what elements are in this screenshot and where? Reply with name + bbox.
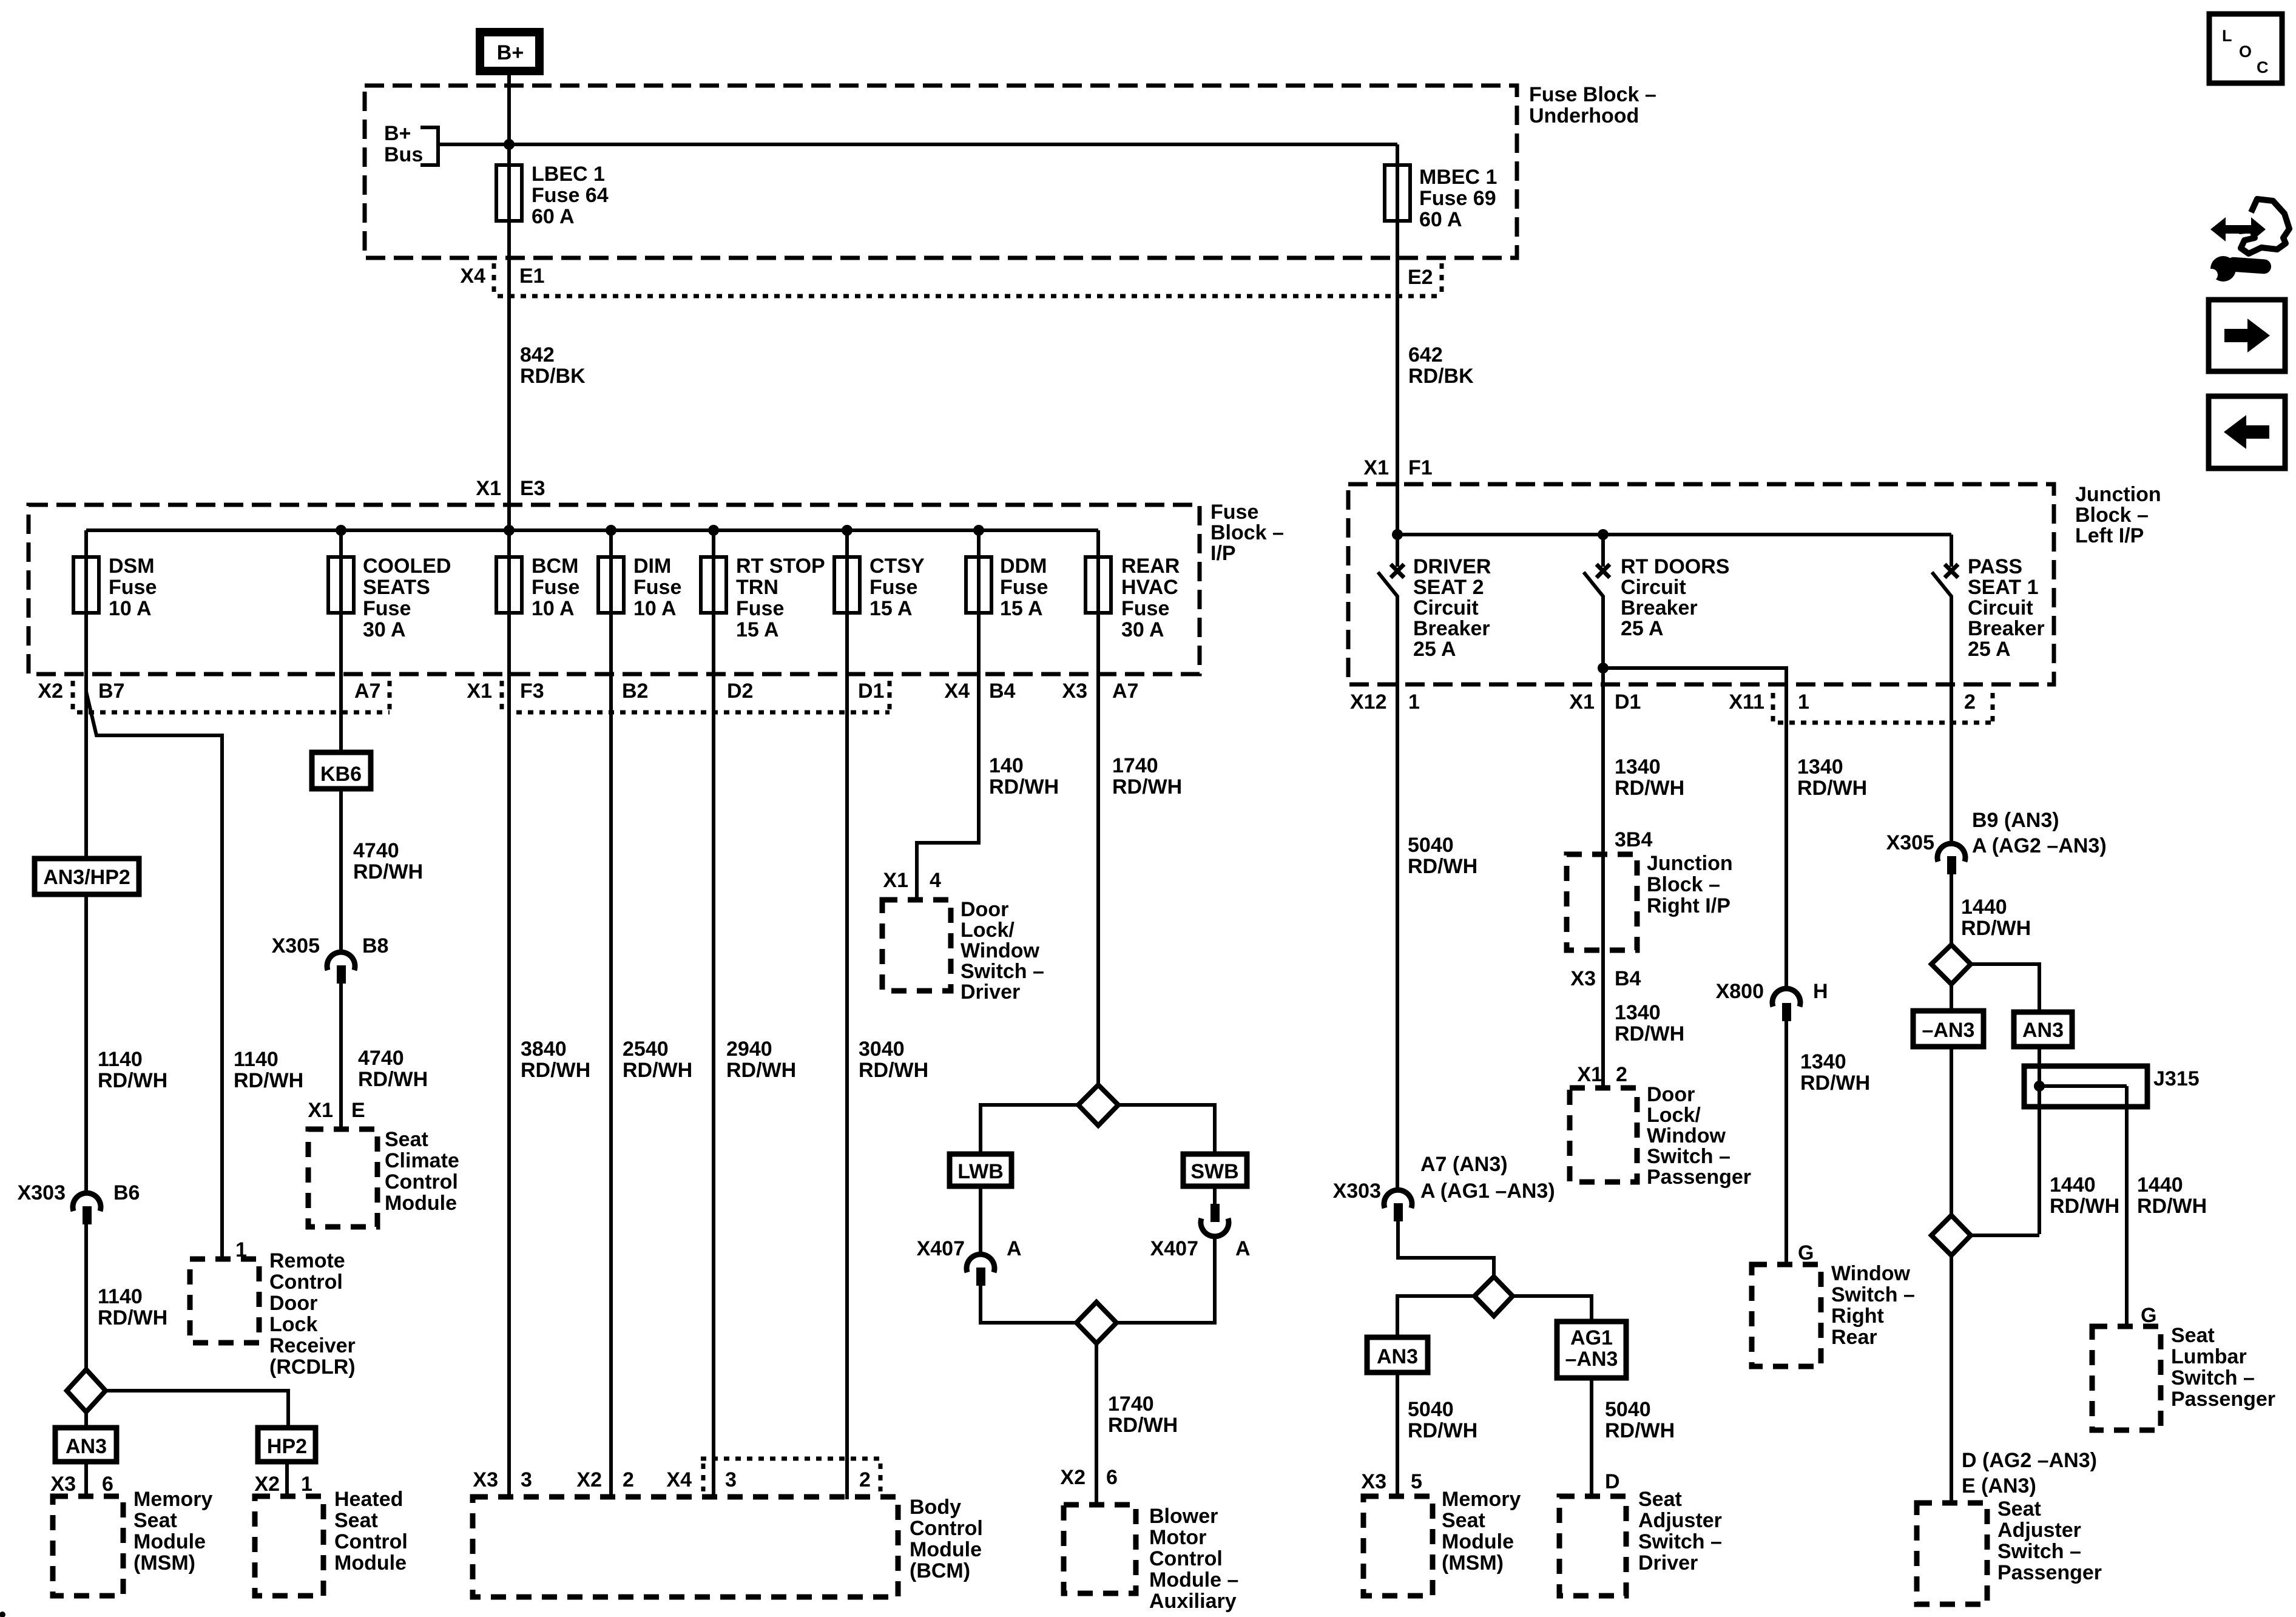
svg-text:Control: Control <box>1149 1547 1223 1570</box>
svg-text:X12: X12 <box>1350 690 1387 714</box>
splice diamond blower top <box>981 1085 1215 1154</box>
svg-text:1740: 1740 <box>1108 1393 1154 1416</box>
svg-text:30 A: 30 A <box>1121 618 1164 641</box>
svg-text:B6: B6 <box>113 1181 140 1204</box>
svg-text:2540: 2540 <box>623 1038 669 1061</box>
svg-text:X1: X1 <box>883 869 908 892</box>
svg-text:Adjuster: Adjuster <box>1997 1519 2081 1542</box>
svg-text:1440: 1440 <box>2137 1173 2183 1197</box>
svg-text:RD/WH: RD/WH <box>1112 775 1182 798</box>
wire branch to X11 <box>1603 668 1786 693</box>
Door Lock/Window Switch - Passenger dashed box <box>1570 1083 1751 1189</box>
BCM pin labels <box>473 1468 871 1491</box>
svg-text:X2: X2 <box>38 680 63 703</box>
svg-text:Memory: Memory <box>133 1488 212 1511</box>
svg-text:25 A: 25 A <box>1968 638 2011 661</box>
svg-text:TRN: TRN <box>736 576 778 599</box>
svg-text:SEATS: SEATS <box>363 576 430 599</box>
svg-text:AG1: AG1 <box>1570 1326 1613 1349</box>
node X3/5 <box>1361 1470 1422 1493</box>
svg-text:10 A: 10 A <box>633 597 677 620</box>
Door Lock/Window Switch - Driver dashed box <box>882 897 1044 1004</box>
svg-text:X800: X800 <box>1716 980 1764 1003</box>
node bus/B+ junction <box>504 139 515 150</box>
svg-text:15 A: 15 A <box>869 597 913 620</box>
svg-text:Fuse 69: Fuse 69 <box>1419 187 1496 210</box>
svg-text:Module: Module <box>334 1551 407 1575</box>
Seat Climate Control Module dashed box <box>308 1127 459 1227</box>
connector row A (fuse block I/P bottom) <box>38 680 1138 712</box>
wire 1740 RD/WH to blower <box>1108 1393 1178 1437</box>
svg-text:E1: E1 <box>519 265 545 288</box>
svg-text:Seat: Seat <box>1997 1497 2041 1521</box>
box HP2 <box>258 1428 316 1496</box>
Fuse Block - I/P dashed box <box>29 505 1200 674</box>
svg-text:3040: 3040 <box>859 1038 905 1061</box>
svg-text:1: 1 <box>301 1473 312 1496</box>
svg-text:2: 2 <box>859 1468 871 1491</box>
svg-text:3840: 3840 <box>521 1038 567 1061</box>
svg-text:60 A: 60 A <box>1419 208 1462 231</box>
wire 1440 RD/WH upper <box>1951 874 2031 945</box>
svg-text:X3: X3 <box>1062 680 1087 703</box>
svg-text:10 A: 10 A <box>109 597 152 620</box>
svg-text:2: 2 <box>623 1468 634 1491</box>
node X3/B4 <box>1570 967 1641 990</box>
svg-text:A (AG2 –AN3): A (AG2 –AN3) <box>1972 834 2107 857</box>
box AN3 (J315 feed) <box>2014 1012 2072 1086</box>
wire 140 RD/WH (DDM) <box>917 613 1059 900</box>
fuse LBEC 1 Fuse 64 60 A <box>496 144 609 296</box>
svg-text:X303: X303 <box>1333 1180 1381 1203</box>
svg-text:1140: 1140 <box>98 1048 143 1071</box>
svg-text:X11: X11 <box>1729 690 1764 714</box>
svg-text:Driver: Driver <box>961 981 1020 1004</box>
wire 4740 RD/WH lower <box>341 984 428 1129</box>
wire 4740 RD/WH upper <box>341 789 423 953</box>
connector X407 A (SWB side) <box>1116 1204 1251 1323</box>
svg-text:B+: B+ <box>497 41 524 64</box>
Junction Block - Right I/P dashed box <box>1567 852 1733 950</box>
svg-text:Junction: Junction <box>1647 852 1733 875</box>
wire 1140 RD/WH (DSM main) <box>86 894 167 1192</box>
svg-text:–AN3: –AN3 <box>1565 1348 1618 1371</box>
svg-text:E3: E3 <box>520 477 545 500</box>
svg-text:Memory: Memory <box>1442 1488 1521 1511</box>
svg-text:Breaker: Breaker <box>1621 596 1698 619</box>
svg-text:Block –: Block – <box>1210 521 1284 544</box>
svg-text:Right I/P: Right I/P <box>1647 894 1730 917</box>
Fuse Block - Underhood dashed box <box>365 86 1517 258</box>
svg-text:Control: Control <box>910 1517 983 1540</box>
node D/E seat adjuster passenger <box>1962 1449 2097 1497</box>
Window Switch - Right Rear dashed box <box>1752 1262 1915 1366</box>
svg-text:5: 5 <box>1411 1470 1422 1493</box>
svg-text:5040: 5040 <box>1408 1398 1454 1421</box>
svg-text:(MSM): (MSM) <box>1442 1551 1504 1575</box>
svg-text:Switch –: Switch – <box>1647 1145 1730 1168</box>
svg-text:A7 (AN3): A7 (AN3) <box>1420 1153 1508 1176</box>
Memory Seat Module (MSM) dashed box <box>53 1488 212 1596</box>
Junction Block - Left I/P dashed box <box>1348 484 2054 684</box>
wire 3040 RD/WH (CTSY) <box>847 613 928 1497</box>
svg-text:10 A: 10 A <box>532 597 575 620</box>
svg-text:1140: 1140 <box>98 1285 143 1308</box>
svg-text:Window: Window <box>1831 1262 1911 1285</box>
svg-text:A7: A7 <box>354 680 380 703</box>
svg-text:RD/WH: RD/WH <box>623 1059 692 1082</box>
svg-text:RD/WH: RD/WH <box>726 1059 796 1082</box>
svg-text:Fuse: Fuse <box>109 576 157 599</box>
svg-text:RD/WH: RD/WH <box>1108 1414 1178 1437</box>
svg-text:F3: F3 <box>520 680 544 703</box>
svg-text:30 A: 30 A <box>363 618 406 641</box>
svg-text:3B4: 3B4 <box>1615 828 1652 851</box>
svg-text:Junction: Junction <box>2075 483 2161 506</box>
svg-text:25 A: 25 A <box>1413 638 1456 661</box>
svg-text:F1: F1 <box>1408 456 1433 479</box>
wire DSM branch jog to RCDLR feed <box>86 692 222 1259</box>
Blower Motor Control Module - Auxiliary dashed box <box>1064 1502 1238 1613</box>
node bus junction dots <box>336 525 346 536</box>
svg-text:(RCDLR): (RCDLR) <box>269 1355 356 1379</box>
svg-text:RD/WH: RD/WH <box>521 1059 590 1082</box>
svg-text:Switch –: Switch – <box>961 960 1044 983</box>
svg-text:RT STOP: RT STOP <box>736 555 825 578</box>
Remote Control Door Lock Receiver (RCDLR) dashed box <box>190 1249 356 1379</box>
svg-text:Climate: Climate <box>385 1149 459 1172</box>
svg-text:Fuse: Fuse <box>1000 576 1048 599</box>
svg-text:B7: B7 <box>98 680 124 703</box>
svg-text:Fuse: Fuse <box>363 597 411 620</box>
svg-text:B4: B4 <box>1615 967 1641 990</box>
svg-text:E: E <box>351 1099 365 1122</box>
svg-text:X1: X1 <box>1577 1063 1602 1086</box>
svg-text:B+: B+ <box>384 122 411 145</box>
svg-text:L: L <box>2222 27 2232 45</box>
circuit breaker PASS SEAT 1 25 A <box>1932 535 2045 693</box>
svg-text:B4: B4 <box>989 680 1016 703</box>
svg-text:Module: Module <box>1442 1530 1514 1553</box>
svg-text:Passenger: Passenger <box>1647 1166 1751 1189</box>
svg-text:1340: 1340 <box>1615 1001 1661 1024</box>
svg-text:4: 4 <box>930 869 941 892</box>
svg-text:Lumbar: Lumbar <box>2171 1345 2247 1368</box>
connector X303 B6 <box>18 1181 140 1369</box>
svg-text:J315: J315 <box>2153 1067 2200 1090</box>
svg-text:1340: 1340 <box>1615 755 1661 778</box>
connector X800 H <box>1716 980 1828 1021</box>
fuse REAR HVAC 30 A <box>1086 530 1180 641</box>
svg-text:X305: X305 <box>1886 831 1934 854</box>
svg-text:RD/WH: RD/WH <box>1615 777 1684 800</box>
svg-text:B2: B2 <box>622 680 648 703</box>
svg-text:KB6: KB6 <box>320 763 362 786</box>
svg-text:E (AN3): E (AN3) <box>1962 1474 2036 1497</box>
svg-text:RD/WH: RD/WH <box>1408 855 1477 878</box>
svg-text:X1: X1 <box>1569 690 1595 714</box>
svg-text:RD/WH: RD/WH <box>1408 1419 1477 1442</box>
svg-text:D2: D2 <box>727 680 753 703</box>
splice diamond pass seat upper <box>1931 945 2039 1012</box>
svg-text:6: 6 <box>1106 1466 1118 1489</box>
svg-text:Door: Door <box>1647 1083 1695 1106</box>
svg-text:Passenger: Passenger <box>2171 1388 2275 1411</box>
svg-text:Motor: Motor <box>1149 1526 1206 1549</box>
svg-text:Window: Window <box>1647 1124 1726 1147</box>
svg-text:Adjuster: Adjuster <box>1638 1509 1722 1532</box>
node X1/E3 <box>476 477 545 500</box>
svg-text:AN3: AN3 <box>2022 1019 2064 1042</box>
svg-text:X2: X2 <box>1060 1466 1086 1489</box>
svg-text:Circuit: Circuit <box>1621 576 1686 599</box>
svg-text:Seat: Seat <box>2171 1324 2215 1347</box>
splice block J315 <box>2024 1066 2200 1326</box>
wire 5040 RD/WH driver seat 2 <box>1397 693 1477 1190</box>
svg-text:Blower: Blower <box>1149 1505 1218 1528</box>
BCM connector strip dotted <box>701 1459 880 1491</box>
svg-text:Lock/: Lock/ <box>961 919 1015 942</box>
svg-text:Auxiliary: Auxiliary <box>1149 1590 1237 1613</box>
svg-text:Underhood: Underhood <box>1529 104 1639 127</box>
svg-text:B9 (AN3): B9 (AN3) <box>1972 809 2059 832</box>
B+ terminal box <box>480 32 539 71</box>
battery feed B+ <box>480 32 539 167</box>
splice diamond pass seat lower <box>1931 1215 2039 1503</box>
svg-text:MBEC 1: MBEC 1 <box>1419 166 1497 189</box>
wire 642 RD/BK <box>1397 296 1474 535</box>
Heated Seat Control Module dashed box <box>255 1488 408 1596</box>
svg-text:Breaker: Breaker <box>1968 617 2045 640</box>
wire pass seat to X305 <box>1950 693 1953 845</box>
svg-text:Fuse: Fuse <box>736 597 784 620</box>
svg-text:Switch –: Switch – <box>1997 1540 2081 1563</box>
svg-text:PASS: PASS <box>1968 555 2022 578</box>
junction block bus wire <box>1397 533 1951 536</box>
svg-text:AN3/HP2: AN3/HP2 <box>43 866 130 889</box>
svg-text:Door: Door <box>269 1292 317 1315</box>
svg-text:X4: X4 <box>460 265 485 288</box>
svg-text:Body: Body <box>910 1496 961 1519</box>
svg-text:RD/WH: RD/WH <box>98 1306 167 1329</box>
svg-text:15 A: 15 A <box>1000 597 1043 620</box>
svg-text:A7: A7 <box>1112 680 1138 703</box>
node RT DOORS output junction <box>1598 663 1609 673</box>
svg-text:X4: X4 <box>666 1468 692 1491</box>
fuse DIM 10 A <box>598 530 681 620</box>
wire X11 1340 RD/WH <box>1786 693 1867 988</box>
svg-text:Bus: Bus <box>384 143 423 166</box>
svg-text:Fuse: Fuse <box>532 576 579 599</box>
svg-text:Block –: Block – <box>1647 873 1720 896</box>
icon arrow next <box>2209 300 2285 371</box>
circuit breaker DRIVER SEAT 2 25 A <box>1378 535 1491 693</box>
wire 1140 RD/WH lower <box>98 1285 167 1329</box>
wire 1440 RD/WH right <box>2137 1173 2207 1218</box>
svg-text:Control: Control <box>385 1170 458 1193</box>
svg-text:Fuse 64: Fuse 64 <box>532 184 609 207</box>
svg-text:–AN3: –AN3 <box>1922 1019 1975 1042</box>
wire 842 RD/BK <box>509 296 586 530</box>
svg-text:Fuse: Fuse <box>1210 501 1258 524</box>
svg-text:(BCM): (BCM) <box>910 1559 970 1582</box>
svg-text:SEAT 2: SEAT 2 <box>1413 576 1484 599</box>
svg-text:Door: Door <box>961 898 1008 921</box>
svg-text:Switch –: Switch – <box>2171 1366 2255 1389</box>
svg-text:Rear: Rear <box>1831 1326 1877 1349</box>
svg-text:X1: X1 <box>1363 456 1389 479</box>
svg-text:Breaker: Breaker <box>1413 617 1490 640</box>
svg-text:Receiver: Receiver <box>269 1334 356 1357</box>
node bus dots <box>1392 529 1403 540</box>
svg-text:RD/BK: RD/BK <box>520 365 586 388</box>
svg-text:RD/WH: RD/WH <box>859 1059 928 1082</box>
svg-text:1: 1 <box>1798 690 1809 714</box>
Seat Adjuster Switch - Driver dashed box <box>1559 1488 1722 1596</box>
svg-text:X3: X3 <box>1570 967 1596 990</box>
wire -AN3 to diamond <box>1950 1047 1953 1215</box>
svg-text:DRIVER: DRIVER <box>1413 555 1491 578</box>
wire COOLED SEATS to KB6 <box>339 613 343 752</box>
svg-text:140: 140 <box>989 754 1024 777</box>
svg-text:RD/WH: RD/WH <box>353 860 423 883</box>
svg-text:RD/WH: RD/WH <box>2137 1195 2207 1218</box>
Body Control Module (BCM) dashed box <box>473 1494 983 1597</box>
svg-text:REAR: REAR <box>1121 555 1180 578</box>
svg-text:5040: 5040 <box>1605 1398 1651 1421</box>
svg-text:X305: X305 <box>272 934 320 957</box>
svg-text:2: 2 <box>1964 690 1976 714</box>
svg-text:RD/BK: RD/BK <box>1408 365 1474 388</box>
box KB6 <box>312 752 371 789</box>
svg-text:DDM: DDM <box>1000 555 1047 578</box>
svg-text:1: 1 <box>1408 690 1420 714</box>
svg-text:Lock: Lock <box>269 1313 317 1336</box>
svg-text:Block –: Block – <box>2075 504 2149 527</box>
connector row X4/E1/E2 <box>460 263 1442 296</box>
svg-text:E2: E2 <box>1408 266 1433 289</box>
wire 1140 RD/WH (RCDLR feed) <box>234 1048 303 1092</box>
wire 1340 RD/WH to door lock passenger <box>1603 950 1684 1088</box>
svg-text:Module –: Module – <box>1149 1568 1238 1592</box>
svg-text:X4: X4 <box>944 680 970 703</box>
svg-text:15 A: 15 A <box>736 618 779 641</box>
wire 1340 RD/WH rt doors <box>1603 693 1684 854</box>
node X2/6 blower <box>1060 1466 1118 1489</box>
svg-text:Right: Right <box>1831 1305 1884 1328</box>
I/P bus wire <box>86 528 1098 532</box>
svg-text:H: H <box>1813 980 1828 1003</box>
svg-text:Left I/P: Left I/P <box>2075 524 2144 547</box>
svg-text:I/P: I/P <box>1210 542 1236 565</box>
box AN3 (driver) <box>55 1428 116 1496</box>
icon adjustable component (hand/wrench) <box>2206 199 2289 282</box>
svg-text:Heated: Heated <box>334 1488 403 1511</box>
svg-text:Module: Module <box>133 1530 206 1553</box>
svg-text:Passenger: Passenger <box>1997 1561 2102 1584</box>
svg-text:Fuse: Fuse <box>869 576 917 599</box>
svg-text:HVAC: HVAC <box>1121 576 1178 599</box>
Seat Adjuster Switch - Passenger dashed box <box>1917 1497 2102 1604</box>
svg-text:D: D <box>1605 1470 1620 1493</box>
wire 1440 RD/WH mid <box>2050 1173 2119 1218</box>
svg-text:G: G <box>1798 1241 1814 1264</box>
svg-text:2: 2 <box>1616 1063 1627 1086</box>
node X1/4 <box>883 869 941 892</box>
svg-text:Switch –: Switch – <box>1638 1530 1722 1553</box>
svg-text:Seat: Seat <box>1638 1488 1682 1511</box>
svg-text:4740: 4740 <box>353 839 399 862</box>
svg-text:Window: Window <box>961 939 1040 962</box>
fuse MBEC 1 Fuse 69 60 A <box>1385 165 1497 231</box>
svg-text:RD/WH: RD/WH <box>358 1068 428 1091</box>
svg-text:RD/WH: RD/WH <box>98 1069 167 1092</box>
splice diamond blower bottom <box>1076 1302 1116 1505</box>
svg-text:1740: 1740 <box>1112 754 1158 777</box>
svg-text:4740: 4740 <box>358 1047 404 1070</box>
fuse BCM 10 A <box>496 530 579 620</box>
svg-text:X1: X1 <box>476 477 501 500</box>
svg-text:X2: X2 <box>576 1468 602 1491</box>
node X1/E <box>308 1099 365 1122</box>
icon LOC box <box>2209 14 2282 83</box>
fuse COOLED SEATS 30 A <box>328 530 451 752</box>
svg-text:X303: X303 <box>18 1181 66 1204</box>
svg-text:2940: 2940 <box>726 1038 772 1061</box>
circuit breaker RT DOORS 25 A <box>1584 535 1729 693</box>
wire driver seat 2 lower + X303 <box>1333 1153 1555 1277</box>
svg-text:RD/WH: RD/WH <box>1797 777 1867 800</box>
svg-text:Fuse: Fuse <box>633 576 681 599</box>
svg-text:RD/WH: RD/WH <box>1605 1419 1675 1442</box>
box AN3 (MSM feed) <box>1367 1337 1428 1372</box>
svg-text:Seat: Seat <box>1442 1509 1485 1532</box>
svg-text:A (AG1 –AN3): A (AG1 –AN3) <box>1420 1180 1555 1203</box>
svg-text:Module: Module <box>385 1192 457 1215</box>
wire 2540 RD/WH (DIM) <box>611 613 692 1497</box>
svg-text:Module: Module <box>910 1538 982 1561</box>
svg-text:A: A <box>1235 1237 1251 1260</box>
icon arrow back <box>2209 396 2285 468</box>
svg-text:G: G <box>2141 1304 2156 1327</box>
svg-text:RD/WH: RD/WH <box>1615 1022 1684 1045</box>
svg-text:AN3: AN3 <box>1377 1345 1418 1368</box>
svg-text:C: C <box>2257 58 2269 76</box>
svg-text:5040: 5040 <box>1408 834 1454 857</box>
connector X407 A (LWB side) <box>917 1237 1077 1323</box>
connector X305 B8 <box>272 934 389 984</box>
svg-text:SWB: SWB <box>1190 1160 1238 1183</box>
B+ Bus label and bracket <box>384 122 438 166</box>
wire DSM main <box>84 692 88 859</box>
svg-text:X3: X3 <box>1361 1470 1386 1493</box>
fuse DSM 10 A <box>73 530 157 692</box>
svg-text:Switch –: Switch – <box>1831 1283 1915 1306</box>
svg-text:AN3: AN3 <box>66 1435 107 1458</box>
svg-text:RD/WH: RD/WH <box>1800 1072 1870 1095</box>
svg-text:D1: D1 <box>858 680 884 703</box>
svg-text:X3: X3 <box>473 1468 498 1491</box>
svg-text:1140: 1140 <box>234 1048 279 1071</box>
svg-text:3: 3 <box>725 1468 737 1491</box>
box AG1 -AN3 <box>1557 1322 1626 1378</box>
svg-text:6: 6 <box>102 1473 113 1496</box>
wire 3840 RD/WH (BCM) <box>509 613 590 1497</box>
svg-text:X407: X407 <box>917 1237 965 1260</box>
svg-text:X1: X1 <box>467 680 492 703</box>
svg-text:Seat: Seat <box>385 1128 428 1151</box>
svg-text:D (AG2 –AN3): D (AG2 –AN3) <box>1962 1449 2097 1472</box>
